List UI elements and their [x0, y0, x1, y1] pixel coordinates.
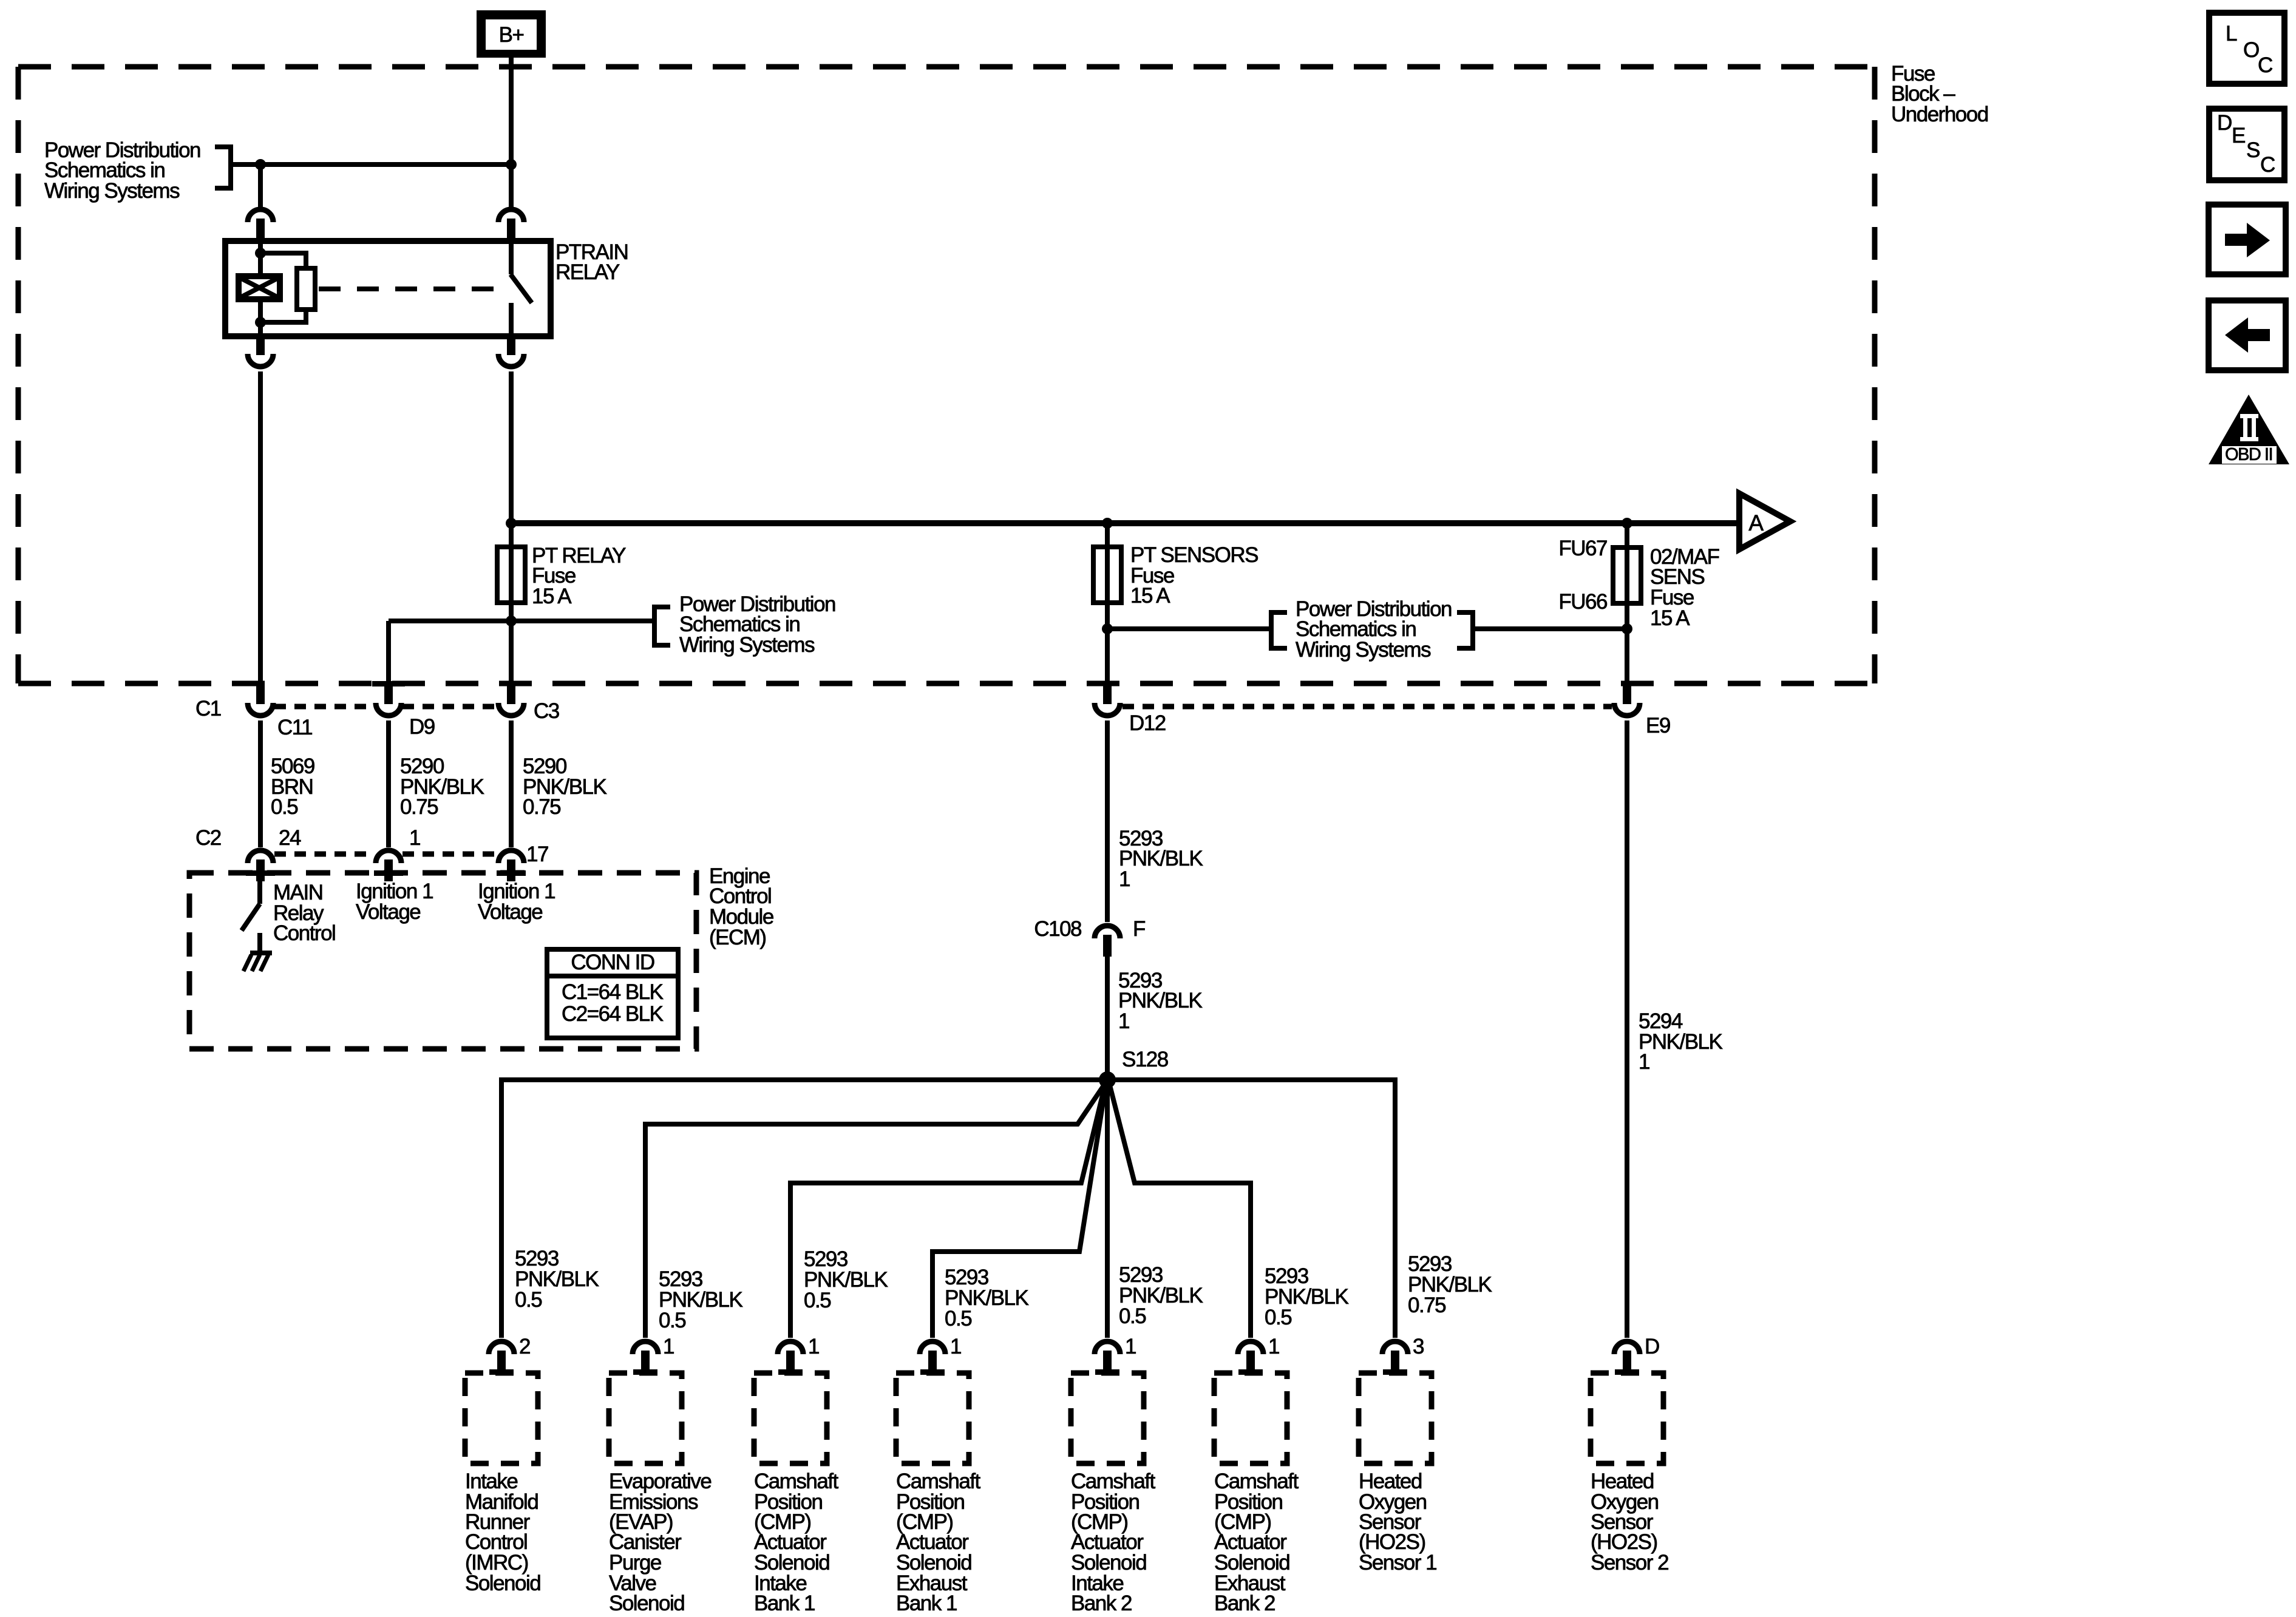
- svg-text:15 A: 15 A: [1130, 584, 1170, 608]
- svg-text:1: 1: [1125, 1335, 1136, 1358]
- connector pin 1 at CMP actuator intake bank2: [1095, 1341, 1120, 1372]
- svg-text:1: 1: [409, 826, 420, 850]
- wire tap to Power Distribution note 3 left: [1107, 626, 1269, 631]
- svg-text:Sensor 2: Sensor 2: [1591, 1551, 1668, 1575]
- connector pin 1 at CMP actuator exhaust bank2: [1238, 1341, 1263, 1372]
- power terminal B+: [477, 10, 546, 58]
- svg-text:D: D: [1645, 1335, 1659, 1358]
- icon OBD II triangle: [2209, 395, 2289, 464]
- wire 5290 PNK/BLK 0.75 (D9): [386, 720, 391, 847]
- svg-text:C1=64 BLK: C1=64 BLK: [562, 980, 664, 1004]
- svg-text:E9: E9: [1646, 714, 1670, 737]
- svg-text:C: C: [2258, 53, 2272, 77]
- fuse block underhood dashed border top: [18, 64, 1875, 70]
- svg-text:E: E: [2232, 124, 2245, 147]
- device box HO2S sensor 2: [1591, 1373, 1663, 1463]
- svg-text:FU67: FU67: [1558, 537, 1607, 560]
- wire branch to CMP exhaust bank1: [932, 1083, 1106, 1338]
- splice S128: [1099, 1071, 1116, 1088]
- svg-text:17: 17: [526, 842, 548, 866]
- wire D9 drop: [386, 621, 391, 685]
- svg-text:Wiring Systems: Wiring Systems: [679, 633, 815, 657]
- svg-text:PNK/BLK: PNK/BLK: [1639, 1030, 1722, 1054]
- wire switch to ground: [257, 933, 262, 953]
- bracket to Power Distribution note 1: [215, 147, 231, 188]
- wire bus from relay output to arrow A: [511, 520, 1739, 526]
- wire power distribution feed horizontal: [231, 162, 511, 167]
- svg-text:0.5: 0.5: [804, 1289, 830, 1312]
- connector pin 2 at IMRC solenoid: [489, 1341, 514, 1372]
- svg-text:0.5: 0.5: [271, 795, 297, 819]
- svg-text:Bank 1: Bank 1: [896, 1592, 957, 1615]
- wire 5293 PNK/BLK 1 (D12 to C108): [1105, 720, 1110, 922]
- svg-text:1: 1: [1118, 1009, 1129, 1033]
- connector pin relay terminal 85: [248, 334, 273, 367]
- fuse block dashed border right: [1872, 67, 1878, 683]
- device box CMP actuator intake bank1: [754, 1373, 827, 1463]
- wire relay switch upper: [509, 241, 514, 274]
- connector C108 pin F: [1095, 926, 1120, 957]
- fuse 02/MAF SENS 15 A: [1613, 547, 1641, 603]
- wire relay 85 down to ECM C1: [258, 371, 263, 685]
- wire branch to CMP intake bank1: [790, 1083, 1106, 1338]
- junction bus at PT RELAY fuse: [506, 518, 517, 529]
- connector pin 17 (C3 row2): [498, 850, 524, 881]
- svg-text:Voltage: Voltage: [478, 900, 542, 924]
- connector E9: [1614, 683, 1640, 716]
- svg-text:D9: D9: [409, 715, 435, 739]
- svg-text:D: D: [2217, 111, 2232, 135]
- device box CMP actuator intake bank2: [1071, 1373, 1144, 1463]
- junction 02/MAF fuse output tap: [1622, 623, 1632, 634]
- icon arrow right box: [2209, 205, 2286, 274]
- svg-text:FU66: FU66: [1558, 590, 1607, 614]
- fuse PT RELAY 15 A: [497, 547, 525, 603]
- wire branch to CMP exhaust bank2: [1109, 1083, 1251, 1338]
- relay suppression resistor: [297, 268, 315, 310]
- wire coil bottom to relay box bottom: [258, 297, 263, 336]
- svg-text:Voltage: Voltage: [356, 900, 420, 924]
- fuse PT SENSORS 15 A: [1093, 547, 1121, 603]
- CONN ID table: [547, 949, 678, 976]
- svg-text:1: 1: [950, 1335, 961, 1358]
- svg-text:2: 2: [519, 1335, 530, 1358]
- connector flange at pin 1: [374, 870, 403, 876]
- junction bus at 02/MAF SENS fuse: [1622, 518, 1632, 529]
- connector flange at pin 17: [497, 870, 526, 876]
- connector pin 3 at HO2S sensor 1: [1382, 1341, 1408, 1372]
- svg-text:L: L: [2226, 22, 2237, 46]
- svg-text:Underhood: Underhood: [1891, 103, 1988, 126]
- wire straight to CMP intake bank2: [1105, 1080, 1110, 1338]
- bracket right of Power Distribution note 3: [1457, 612, 1473, 648]
- relay coil (box with X): [239, 276, 280, 299]
- device box EVAP purge solenoid: [609, 1373, 682, 1463]
- svg-text:0.5: 0.5: [659, 1309, 685, 1332]
- svg-text:B+: B+: [499, 23, 524, 47]
- wire PT SENSORS fuse drop: [1105, 523, 1110, 685]
- connector pin 1 (D9 row2): [376, 850, 401, 881]
- svg-text:0.5: 0.5: [1119, 1304, 1146, 1328]
- connector D12: [1095, 683, 1120, 716]
- connector pin relay terminal 87: [498, 334, 524, 367]
- svg-text:0.75: 0.75: [1408, 1293, 1445, 1317]
- svg-text:C2=64 BLK: C2=64 BLK: [562, 1002, 664, 1026]
- off-page arrow A: [1739, 493, 1790, 549]
- svg-text:Sensor 1: Sensor 1: [1359, 1551, 1436, 1575]
- connector pin 1 at EVAP purge solenoid: [633, 1341, 658, 1372]
- svg-text:F: F: [1133, 917, 1145, 941]
- svg-text:15 A: 15 A: [1650, 606, 1690, 630]
- device box HO2S sensor 1: [1359, 1373, 1432, 1463]
- svg-text:A: A: [1748, 510, 1764, 535]
- junction PT RELAY fuse output tap: [506, 615, 517, 626]
- icon DESC box: [2209, 109, 2284, 180]
- dotted connector line C1 row: [274, 704, 375, 710]
- svg-text:S: S: [2246, 138, 2260, 162]
- relay switch blade (open): [511, 274, 532, 303]
- wire B+ down to PTRAIN relay pin 30: [509, 58, 514, 207]
- svg-text:C1: C1: [195, 697, 221, 720]
- svg-text:Solenoid: Solenoid: [465, 1571, 540, 1595]
- connector C3: [498, 683, 524, 716]
- svg-text:3: 3: [1413, 1335, 1424, 1358]
- wire relay switch lower: [509, 303, 514, 336]
- svg-text:Bank 2: Bank 2: [1071, 1592, 1132, 1615]
- fuse block dashed border left: [16, 67, 21, 683]
- svg-text:PNK/BLK: PNK/BLK: [1119, 847, 1203, 870]
- bracket to Power Distribution note 2: [654, 607, 670, 645]
- switch main relay control blade: [242, 904, 260, 931]
- ECM module dashed box: [189, 873, 696, 1049]
- connector C2 pin 24: [248, 850, 273, 881]
- wire 5294 PNK/BLK 1 (E9 to HO2S 2): [1625, 720, 1629, 1338]
- svg-text:C108: C108: [1034, 917, 1081, 941]
- wire drop to HO2S 1: [1393, 1077, 1398, 1338]
- connector pin at relay coil terminal 86: [248, 209, 273, 240]
- wire tap to D9 ignition feed: [389, 619, 652, 623]
- connector pin 1 at CMP actuator exhaust bank1: [920, 1341, 945, 1372]
- svg-text:1: 1: [1268, 1335, 1279, 1358]
- wire branch down to relay coil: [258, 164, 263, 207]
- svg-text:Bank 2: Bank 2: [1214, 1592, 1275, 1615]
- svg-text:PNK/BLK: PNK/BLK: [1118, 989, 1202, 1012]
- svg-text:0.75: 0.75: [400, 795, 438, 819]
- ground chassis symbol: [250, 951, 272, 955]
- junction on B+ wire: [506, 159, 517, 170]
- bracket left of Power Distribution note 3: [1271, 612, 1287, 648]
- wire main relay control stub: [257, 881, 262, 904]
- fuse block dashed border bottom: [18, 681, 1875, 686]
- wire branch to EVAP (diagonal + horizontal): [645, 1083, 1106, 1338]
- svg-text:15 A: 15 A: [532, 585, 572, 608]
- wire note 3 right to 02/MAF fuse output: [1473, 626, 1627, 631]
- svg-text:24: 24: [279, 826, 301, 850]
- svg-text:CONN ID: CONN ID: [571, 951, 654, 974]
- svg-text:1: 1: [1639, 1050, 1649, 1074]
- wire 02/MAF fuse drop: [1625, 523, 1629, 685]
- connector pin at relay switch terminal 30: [498, 209, 524, 240]
- dashed mechanical link coil to switch: [319, 286, 497, 291]
- wire resistor top lead: [260, 253, 306, 270]
- connector C1 pin C11: [248, 683, 273, 716]
- svg-text:Wiring Systems: Wiring Systems: [44, 179, 180, 203]
- svg-text:0.75: 0.75: [523, 795, 560, 819]
- svg-text:(ECM): (ECM): [709, 926, 766, 949]
- wire drop to IMRC solenoid: [499, 1077, 504, 1338]
- svg-text:1: 1: [1119, 867, 1130, 891]
- wire 5069 BRN 0.5: [258, 720, 263, 847]
- svg-text:S128: S128: [1122, 1048, 1168, 1071]
- svg-text:0.5: 0.5: [945, 1307, 971, 1331]
- icon arrow left box: [2209, 300, 2286, 370]
- relay PTRAIN RELAY box: [225, 241, 551, 336]
- wire relay 87 down to PT RELAY fuse and C3: [509, 371, 514, 685]
- svg-text:C: C: [2260, 153, 2275, 177]
- svg-text:RELAY: RELAY: [555, 260, 620, 284]
- svg-text:C11: C11: [277, 716, 312, 739]
- svg-text:1: 1: [808, 1335, 819, 1358]
- svg-text:0.5: 0.5: [1265, 1306, 1291, 1329]
- svg-text:Wiring Systems: Wiring Systems: [1296, 638, 1431, 662]
- connector pin 1 at CMP actuator intake bank1: [778, 1341, 803, 1372]
- wire main horizontal from S128: [501, 1077, 1395, 1082]
- wire 5290 PNK/BLK 0.75 (C3): [509, 720, 514, 847]
- device box CMP actuator exhaust bank1: [896, 1373, 969, 1463]
- svg-text:C2: C2: [195, 826, 221, 850]
- device box IMRC solenoid: [465, 1373, 538, 1463]
- junction coil-resistor bottom: [255, 317, 266, 328]
- border dash patch at D9: [372, 681, 405, 686]
- junction on coil feed wire: [255, 159, 266, 170]
- dotted connector line D12-E9 row: [1123, 704, 1612, 710]
- dotted connector line C2 row: [274, 852, 375, 857]
- svg-text:Bank 1: Bank 1: [754, 1592, 815, 1615]
- wire 5293 PNK/BLK 1 (C108 to S128): [1105, 957, 1110, 1080]
- wire relay coil branch inside: [258, 241, 263, 278]
- connector flange at pin 24: [246, 870, 275, 876]
- svg-text:O: O: [2243, 38, 2259, 62]
- svg-text:Control: Control: [273, 921, 335, 945]
- connector pin D at HO2S sensor 2: [1614, 1341, 1640, 1372]
- connector D9: [376, 683, 401, 716]
- icon LOC box: [2209, 13, 2284, 84]
- svg-text:D12: D12: [1129, 711, 1166, 735]
- svg-text:1: 1: [663, 1335, 674, 1358]
- junction coil-resistor top: [255, 248, 266, 259]
- junction PT SENSORS fuse output tap: [1102, 623, 1113, 634]
- svg-text:Solenoid: Solenoid: [609, 1592, 684, 1615]
- svg-text:C3: C3: [534, 699, 559, 723]
- device box CMP actuator exhaust bank2: [1214, 1373, 1287, 1463]
- wire resistor bottom lead: [260, 310, 306, 322]
- svg-text:0.5: 0.5: [515, 1288, 542, 1312]
- svg-text:OBD II: OBD II: [2225, 445, 2272, 464]
- junction bus at PT SENSORS fuse: [1102, 518, 1113, 529]
